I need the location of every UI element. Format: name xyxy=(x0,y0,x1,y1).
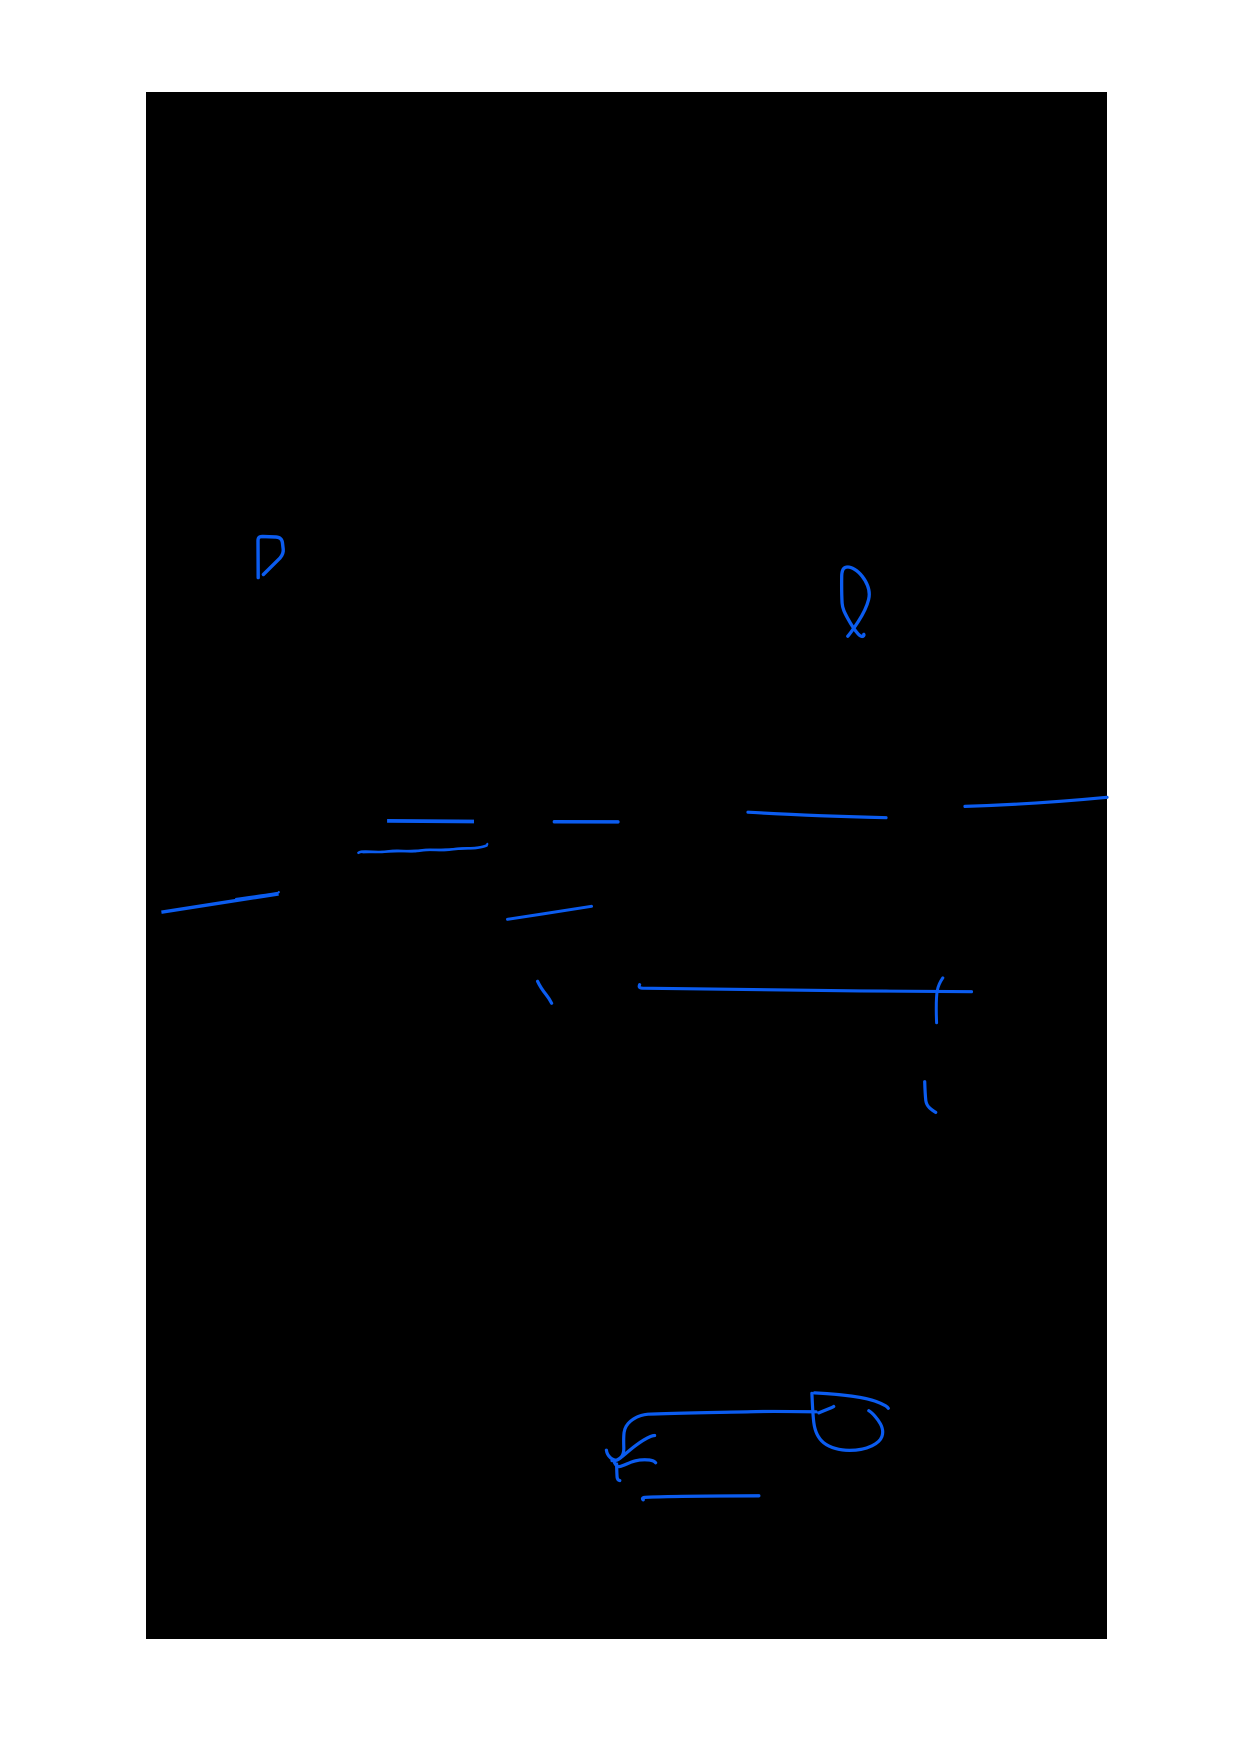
wavy scribble line xyxy=(359,846,487,853)
left diagonal overdraw xyxy=(236,892,279,899)
cross stroke xyxy=(936,978,943,1023)
arrow shaft with bent end xyxy=(612,1411,816,1460)
loop top arc xyxy=(815,1393,889,1408)
left diagonal line xyxy=(161,894,278,912)
ruler line 1 xyxy=(387,819,474,823)
long line with hook start xyxy=(639,985,971,992)
lower curl stroke xyxy=(615,1460,656,1467)
mid line xyxy=(748,812,886,818)
ruler line 2 xyxy=(554,820,618,824)
vertical descender xyxy=(617,1464,620,1481)
underline xyxy=(643,1496,759,1500)
wavy scribble overdraw xyxy=(363,844,487,853)
right line to edge xyxy=(965,797,1107,806)
small checkmark xyxy=(925,1082,936,1113)
short diagonal line xyxy=(508,906,592,919)
small tick xyxy=(538,981,552,1003)
loop body xyxy=(812,1393,883,1450)
check stroke at arrow tail xyxy=(606,1436,654,1461)
inner tick xyxy=(819,1407,834,1413)
cursive ell doodle xyxy=(842,567,870,636)
letter D doodle xyxy=(258,537,283,578)
dark canvas background xyxy=(146,92,1107,1639)
